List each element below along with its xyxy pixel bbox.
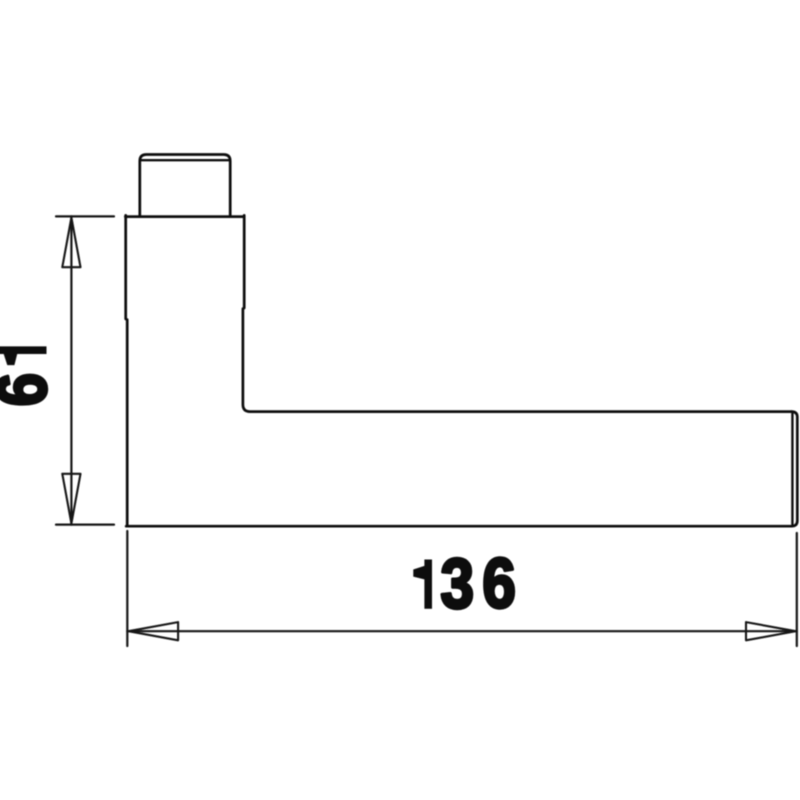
dim 61 dimension line: [70, 216, 72, 524]
dim 136 left arrowhead: [129, 622, 179, 640]
dim 61 bottom extension line: [56, 523, 114, 525]
dim 136 right arrowhead: [746, 622, 796, 640]
lever end cap outer contour: [792, 412, 798, 527]
handle body left edge with jog: [126, 215, 128, 526]
handle body right edge, inner corner, lever top line: [243, 215, 792, 411]
svg-text:3: 3: [441, 544, 475, 622]
dim 136 label: [441, 544, 516, 622]
dim 136 dimension line: [127, 630, 797, 632]
svg-text:6: 6: [0, 373, 61, 407]
handle neck cap (cylinder top): [140, 155, 230, 217]
handle bottom line: [126, 525, 791, 528]
dim 61 top extension line: [56, 215, 114, 217]
dim 61 label: [0, 373, 61, 407]
neck cap edge line: [141, 159, 230, 161]
dim 136 left extension line: [126, 531, 128, 646]
svg-text:6: 6: [482, 544, 516, 622]
handle body top line: [125, 215, 244, 218]
dim 61 bottom arrowhead: [62, 474, 80, 524]
dim 61 top arrowhead: [62, 218, 80, 268]
lever end face edge line: [791, 414, 793, 525]
dim 136 right extension line: [796, 533, 798, 646]
